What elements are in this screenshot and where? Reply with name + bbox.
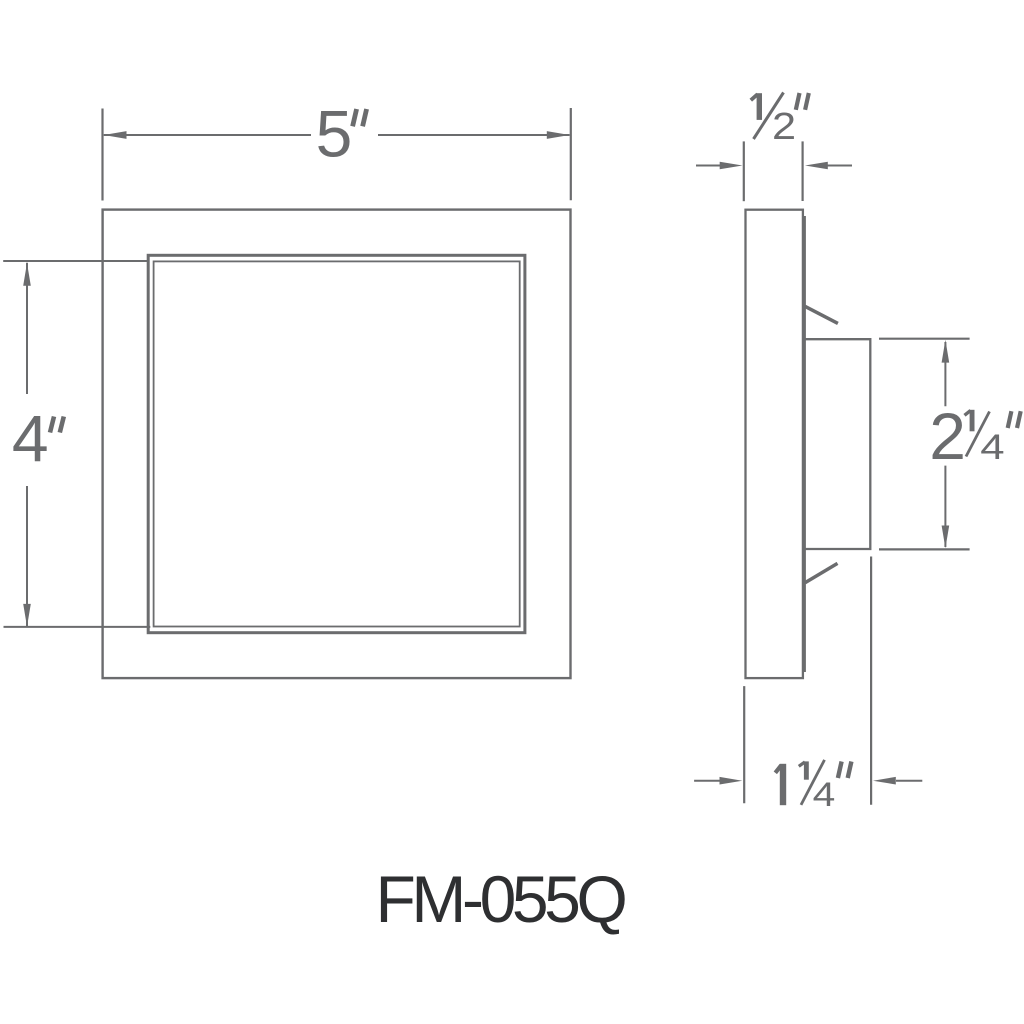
dimension label 1.25 big 1 — [775, 764, 786, 805]
dimension label 1.25 double prime — [838, 762, 852, 779]
side view housing edge line — [803, 216, 806, 672]
dimension 2.25in top line — [879, 338, 970, 340]
dimension 5in line left segment — [104, 134, 311, 136]
dimension 4in down arrowhead — [23, 604, 31, 627]
dimension 1.25in right extension line — [870, 557, 872, 805]
svg-text:4: 4 — [12, 401, 49, 475]
dimension 5in left arrowhead — [104, 131, 127, 139]
side view backplate — [804, 339, 870, 549]
dimension 4in top extension line — [3, 260, 147, 262]
dimension half inch right extension line — [801, 141, 803, 201]
dimension label half fraction slash — [754, 93, 784, 140]
svg-text:2: 2 — [929, 399, 966, 473]
dimension 2.25in down arrowhead — [942, 526, 950, 549]
dimension half inch left arrow — [696, 162, 743, 170]
svg-text:5: 5 — [316, 97, 353, 171]
dimension 1.25in left arrow — [694, 777, 742, 785]
dimension 5in left extension line — [101, 109, 103, 201]
dimension 1.25in right arrow — [873, 777, 922, 785]
front view inner square outer line — [148, 255, 525, 632]
dimension half inch left extension line — [743, 141, 745, 201]
dimension label 5 double prime — [353, 109, 367, 126]
dimension label half denominator 2 — [772, 104, 796, 147]
svg-text:2: 2 — [772, 104, 796, 147]
dimension 4in bottom extension line — [4, 626, 151, 628]
front view outer square — [103, 210, 571, 678]
side view top spring clip — [805, 306, 838, 323]
dimension 2.25in line lower segment — [944, 466, 946, 547]
dimension label half numerator 1 — [751, 93, 762, 120]
dimension label 5 — [316, 97, 353, 171]
dimension 5in right extension line — [570, 108, 572, 200]
dimension 1.25in left extension line — [743, 686, 745, 803]
svg-text:4: 4 — [980, 428, 1004, 467]
dimension label 2.25 fraction denominator 4 — [980, 428, 1004, 467]
dimension 5in right arrowhead — [547, 131, 570, 139]
dimension half inch right arrow — [805, 162, 852, 170]
dimension label 2.25 big 2 — [929, 399, 966, 473]
side view trim plate rectangle — [746, 210, 803, 678]
dimension label 1.25 fraction denominator 4 — [813, 775, 836, 813]
front view inner square inner line — [154, 261, 520, 626]
side view bottom spring clip — [805, 563, 838, 582]
dimension label 2.25 fraction numerator 1 — [965, 410, 975, 432]
model number label FM-055Q — [376, 862, 626, 936]
svg-text:4: 4 — [813, 775, 836, 813]
dimension label 4 — [12, 401, 49, 475]
dimension 5in line right segment — [378, 134, 570, 136]
dimension label 2.25 double prime — [1008, 411, 1021, 428]
dimension 4in up arrowhead — [23, 263, 31, 286]
dimension 2.25in up arrowhead — [942, 340, 950, 363]
dimension 2.25in bottom line — [879, 548, 970, 550]
dimension 4in line lower segment — [26, 486, 28, 627]
dimension 4in line upper segment — [26, 263, 28, 394]
dimension label 1.25 fraction slash — [801, 760, 825, 805]
dimension label 4 double prime — [50, 417, 64, 433]
svg-text:FM-055Q: FM-055Q — [376, 862, 626, 936]
dimension 2.25in line upper segment — [944, 342, 946, 406]
dimension label 1.25 fraction numerator 1 — [799, 761, 809, 779]
dimension label half double prime — [796, 93, 809, 110]
dimension label 2.25 fraction slash — [966, 412, 990, 457]
